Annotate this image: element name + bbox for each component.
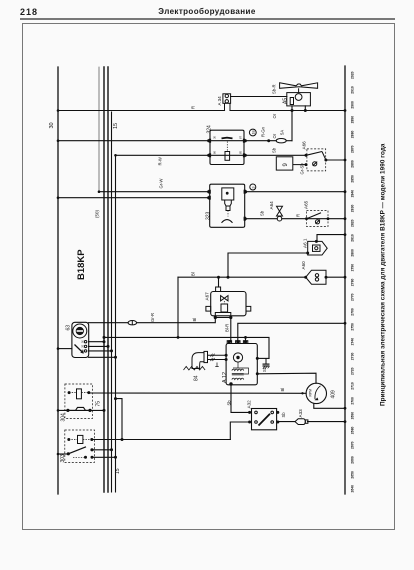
svg-text:2750: 2750: [351, 323, 355, 331]
svg-text:304: 304: [61, 413, 67, 422]
junction relay304 wire / bus15a: [103, 409, 106, 412]
svg-text:A32: A32: [247, 400, 252, 409]
ignition switch 63: [72, 322, 89, 357]
svg-text:2860: 2860: [351, 160, 355, 168]
fuse A34: [223, 94, 231, 104]
wire node to A60: [178, 276, 306, 278]
switch A65: [307, 211, 329, 227]
wire bus to A61 top: [317, 235, 345, 242]
junction A12 top pin1: [228, 340, 231, 343]
svg-text:2770: 2770: [351, 293, 355, 301]
svg-text:85: 85: [239, 150, 243, 154]
wire relay303 coil to A32 riser: [92, 439, 231, 441]
junction A12 pin3 tap: [244, 336, 247, 339]
junction relay303 contact2 right: [91, 456, 94, 459]
junction ignition wire3 / bus15c: [110, 349, 113, 352]
wire to relay323 pin1: [99, 191, 210, 193]
junction A66 wire / right bus: [344, 159, 347, 162]
svg-text:2890: 2890: [351, 116, 355, 124]
svg-text:2710: 2710: [351, 382, 355, 390]
svg-text:Or: Or: [272, 133, 277, 138]
svg-text:75: 75: [96, 401, 102, 407]
junction relay323 bottom pin: [244, 217, 247, 220]
junction relay323 wire / right bus: [344, 190, 347, 193]
junction relay304 contact right: [88, 409, 91, 412]
junction fan left leg / fuse wire: [291, 109, 294, 112]
junction A12 wire / right bus: [344, 322, 347, 325]
wire A12 bottom to A32: [231, 385, 250, 413]
junction A32 right pin2: [276, 421, 279, 424]
junction A60 wire / right bus: [344, 276, 347, 279]
junction A33 wire / right bus: [344, 420, 347, 423]
svg-text:2900: 2900: [351, 101, 355, 109]
svg-text:Gr-Sb: Gr-Sb: [299, 163, 304, 175]
wire 15 group to A12 third pin: [104, 337, 269, 358]
junction A60 right pin: [325, 276, 328, 279]
junction fuse wire / right bus: [344, 109, 347, 112]
wire 15feed to relay324 bottom: [116, 154, 307, 156]
svg-text:Sb: Sb: [281, 412, 286, 418]
capacitor: [265, 358, 267, 364]
svg-text:2690: 2690: [351, 412, 355, 420]
svg-text:R: R: [295, 214, 300, 217]
wire 30bus to A34 fuse: [58, 110, 225, 112]
svg-text:2650: 2650: [351, 471, 355, 479]
wire A34 to right bus: [230, 110, 345, 112]
junction A66 output pin: [324, 159, 327, 162]
svg-text:Sb: Sb: [226, 400, 231, 406]
bus 15 group line e: [115, 155, 117, 492]
junction relay303 coil left: [67, 438, 70, 441]
svg-text:324: 324: [207, 125, 213, 134]
junction relay303 contact left: [67, 452, 70, 455]
wire 30bus to relay323 pin2: [58, 197, 210, 199]
svg-text:2790: 2790: [351, 264, 355, 272]
junction A65 wire / right bus: [344, 217, 347, 220]
tachometer 409: [306, 383, 326, 403]
bus 15 group line a: [98, 67, 100, 192]
junction A67 top lead: [217, 276, 220, 279]
svg-text:2730: 2730: [351, 353, 355, 361]
valve A64: [277, 206, 283, 211]
junction relay303 wire / bus15c: [110, 448, 113, 451]
svg-text:A 34: A 34: [217, 96, 222, 106]
svg-text:A5: A5: [282, 98, 288, 104]
junction relay303 wire2 / bus15d: [114, 456, 117, 459]
junction relay324 pin86: [207, 154, 210, 157]
wire A66 to right bus: [326, 159, 345, 161]
wire ignition right 1: [89, 341, 105, 343]
junction bus30 / relay324 wire: [57, 139, 60, 142]
svg-text:A 12: A 12: [222, 372, 228, 383]
svg-text:2870: 2870: [351, 145, 355, 153]
svg-text:2800: 2800: [351, 249, 355, 257]
svg-text:3: 3: [251, 187, 255, 189]
junction ignition wire1 / bus15a: [103, 340, 106, 343]
svg-text:50: 50: [82, 340, 85, 343]
junction relay324 pin85: [244, 154, 247, 157]
relay 304: [65, 384, 93, 419]
junction bus30 / relay303 wire: [57, 453, 60, 456]
svg-text:30: 30: [49, 122, 55, 128]
wire fan right leg: [304, 106, 306, 111]
svg-text:A67: A67: [205, 292, 210, 301]
relay 323: [210, 184, 245, 227]
fan motor A5: [287, 93, 311, 106]
junction relay303 contact right: [90, 448, 93, 451]
wire 30bus to ignition switch: [58, 348, 72, 350]
junction A67 bottom right pin: [229, 316, 232, 319]
svg-text:15: 15: [113, 123, 119, 129]
svg-text:R-Gn: R-Gn: [261, 126, 266, 137]
junction A61 top pin: [315, 240, 318, 243]
wire A67 top stub riser: [218, 277, 220, 287]
svg-text:Bl: Bl: [192, 318, 197, 322]
bus 15 group line b: [103, 67, 105, 492]
junction relay304 coil right: [87, 391, 90, 394]
junction A66 lower pin: [305, 163, 308, 166]
wire A33 to right bus: [308, 421, 346, 423]
svg-text:2880: 2880: [351, 131, 355, 139]
junction bus30 / relay304 wire: [57, 409, 60, 412]
svg-text:86: 86: [213, 150, 217, 154]
circled 3: [250, 184, 256, 190]
wire relay323 to right bus: [245, 191, 345, 193]
junction A65 left pin: [305, 217, 308, 220]
svg-text:Bl: Bl: [280, 388, 285, 392]
svg-text:2720: 2720: [351, 367, 355, 375]
svg-text:R: R: [191, 106, 196, 109]
svg-text:15: 15: [82, 349, 85, 352]
junction bus30 / fuse wire: [57, 109, 60, 112]
junction A12 left pin1: [225, 354, 228, 357]
junction relay323 pin1: [207, 190, 210, 193]
svg-text:Sb: Sb: [262, 366, 267, 372]
right main bus: [344, 66, 346, 494]
diagnostic unit A32: [252, 409, 277, 430]
junction A12 left pin2: [225, 358, 228, 361]
valve A67: [211, 292, 246, 316]
wire A12 mid pin to right bus: [238, 323, 345, 341]
svg-text:Gr-W: Gr-W: [159, 178, 164, 188]
svg-text:2850: 2850: [351, 175, 355, 183]
junction A12 right pin1: [256, 357, 259, 360]
wire A12 right pin A: [257, 357, 269, 359]
junction bus30 / ignition wire: [57, 347, 60, 350]
svg-text:84: 84: [194, 375, 200, 381]
84 wires to A12: [208, 354, 227, 356]
junction relay324 pin30: [207, 139, 210, 142]
pin nubs relay 324: [209, 139, 211, 143]
svg-text:15: 15: [115, 468, 121, 474]
junction A32 right pin1: [276, 411, 279, 414]
ignition unit A12: [226, 344, 257, 385]
junction A60 left pin: [304, 276, 307, 279]
wire 30bus to relay324 top: [58, 140, 276, 142]
junction A12 top pin3: [244, 340, 247, 343]
wire A12 right pin B to tach top: [257, 373, 316, 383]
wire A61 left branch: [228, 253, 308, 277]
junction relay323 output pin: [244, 190, 247, 193]
svg-text:Принципиальная электрическая с: Принципиальная электрическая схема для д…: [380, 143, 387, 406]
junction A32 left pin2: [248, 421, 251, 424]
spark boot 84: [192, 353, 204, 369]
svg-text:2680: 2680: [351, 427, 355, 435]
wire ignition right 3: [89, 350, 112, 352]
junction bus15 thin / relay323 wire: [98, 190, 101, 193]
bus 30 vertical: [57, 67, 59, 494]
wire relay323 to A64 A65 bus: [245, 218, 277, 220]
wire A34 top to fan A5: [231, 96, 287, 98]
svg-text:(50): (50): [95, 209, 100, 218]
junction fan right leg / fuse wire: [304, 109, 307, 112]
wire relay303 contact2: [92, 456, 116, 458]
svg-text:2700: 2700: [351, 397, 355, 405]
sensor A60: [306, 270, 326, 284]
svg-text:2760: 2760: [351, 308, 355, 316]
svg-text:2670: 2670: [351, 441, 355, 449]
junction oval fuse wire: [267, 139, 270, 142]
svg-text:87: 87: [239, 135, 243, 139]
outer frame: [23, 24, 395, 530]
svg-text:409: 409: [331, 390, 337, 399]
inline fuse 5A oval: [276, 139, 286, 143]
svg-text:2740: 2740: [351, 338, 355, 346]
relay 324: [210, 130, 244, 164]
svg-text:30: 30: [82, 344, 85, 347]
svg-text:Sb-R: Sb-R: [272, 84, 277, 94]
junction relay304 coil left: [68, 391, 71, 394]
bus 15 group line d: [111, 112, 113, 492]
wire fuse oval to fan riser: [286, 140, 292, 142]
wire ignition right 4: [89, 356, 116, 358]
wire A32 to A33: [278, 421, 295, 423]
wire tach bottom to right bus: [314, 404, 345, 409]
relay 303: [65, 430, 95, 462]
junction relay303 contact2 left: [84, 456, 87, 459]
svg-text:2830: 2830: [351, 205, 355, 213]
junction bus15d corner: [114, 154, 117, 157]
junction jog / relay303 wire: [121, 438, 124, 441]
wire relay304 to tach left: [89, 392, 306, 394]
wire fan left leg: [291, 106, 293, 141]
injector A61: [308, 241, 328, 255]
junction ignition wire2 / bus15b: [107, 345, 110, 348]
wire 15feed jog to relay line: [116, 399, 123, 440]
svg-text:A65: A65: [304, 200, 309, 209]
junction A65 right pin: [327, 217, 330, 220]
fan blade A5: [280, 83, 318, 89]
svg-text:2640: 2640: [351, 485, 355, 493]
junction tach left wire: [301, 392, 303, 394]
svg-text:2660: 2660: [351, 456, 355, 464]
junction A12 right pin2: [256, 372, 259, 375]
junction A32 left pin1: [248, 411, 251, 414]
svg-text:2840: 2840: [351, 190, 355, 198]
svg-text:2920: 2920: [351, 71, 355, 79]
svg-text:2780: 2780: [351, 279, 355, 287]
junction A67 bottom left pin: [214, 316, 217, 319]
svg-text:63: 63: [66, 325, 72, 331]
svg-text:Sb: Sb: [272, 147, 277, 153]
inline connector oval: [128, 321, 137, 325]
svg-text:18: 18: [252, 131, 256, 135]
svg-text:A64: A64: [269, 201, 274, 210]
junction ignition wire4 / bus15d: [114, 356, 117, 359]
svg-text:323: 323: [206, 211, 212, 220]
junction tach wire / right bus: [344, 407, 347, 410]
svg-text:2910: 2910: [351, 86, 355, 94]
connector A33: [295, 419, 305, 425]
svg-text:A6 1: A6 1: [303, 238, 308, 248]
wire A32 lower-left to relay303 line: [230, 422, 249, 440]
box 9: [276, 157, 293, 170]
junction A66 upper pin: [305, 154, 308, 157]
junction A61 top wire / right bus: [344, 233, 347, 236]
svg-text:A66: A66: [302, 141, 307, 150]
junction relay324 pin87: [244, 139, 247, 142]
svg-text:2810: 2810: [351, 234, 355, 242]
circled 18: [249, 129, 256, 136]
pin nubs relay 323: [209, 190, 211, 194]
junction A12 top pin2: [236, 340, 239, 343]
bus 15 group line c: [107, 67, 109, 492]
junction jog / bus15d: [114, 397, 117, 400]
svg-text:30: 30: [213, 135, 217, 139]
junction relay304 contact left: [66, 409, 69, 412]
junction A61 left pin: [306, 252, 309, 255]
wire ignition to A67 bottom left: [89, 322, 129, 324]
wire A60 to right bus: [326, 276, 345, 278]
junction node wire A61 branch: [227, 276, 230, 279]
junction relay303 coil right: [90, 438, 93, 441]
wire ignition right 2: [89, 345, 109, 347]
svg-text:B18KP: B18KP: [76, 249, 87, 280]
junction relay323 pin2: [207, 196, 210, 199]
header rule: [20, 18, 395, 20]
svg-text:Gr-R: Gr-R: [150, 313, 155, 322]
wire relay303 contact1: [58, 453, 68, 455]
junction node riser / 15 feed wire: [177, 336, 180, 339]
wire node down to w337: [177, 277, 179, 337]
svg-text:R-W: R-W: [158, 157, 163, 165]
junction bus30 / relay323 wire: [57, 196, 60, 199]
svg-text:RPM: RPM: [309, 389, 313, 397]
svg-text:303: 303: [60, 454, 66, 463]
svg-text:Or: Or: [272, 113, 277, 118]
wire relay304 contact row: [58, 409, 104, 411]
svg-text:9: 9: [283, 163, 289, 167]
junction 15 feed / A12 wire: [103, 336, 106, 339]
svg-text:5A: 5A: [280, 130, 285, 135]
switch A66: [307, 149, 326, 171]
junction A12 bottom pin: [229, 382, 232, 385]
svg-text:A33: A33: [298, 409, 303, 418]
wire A67 bottom right to A12: [230, 318, 232, 342]
svg-text:A60: A60: [301, 261, 306, 270]
svg-text:Sb: Sb: [259, 210, 264, 216]
svg-text:2820: 2820: [351, 219, 355, 227]
svg-text:Bl: Bl: [191, 272, 196, 276]
svg-text:Bl-R: Bl-R: [225, 324, 230, 332]
